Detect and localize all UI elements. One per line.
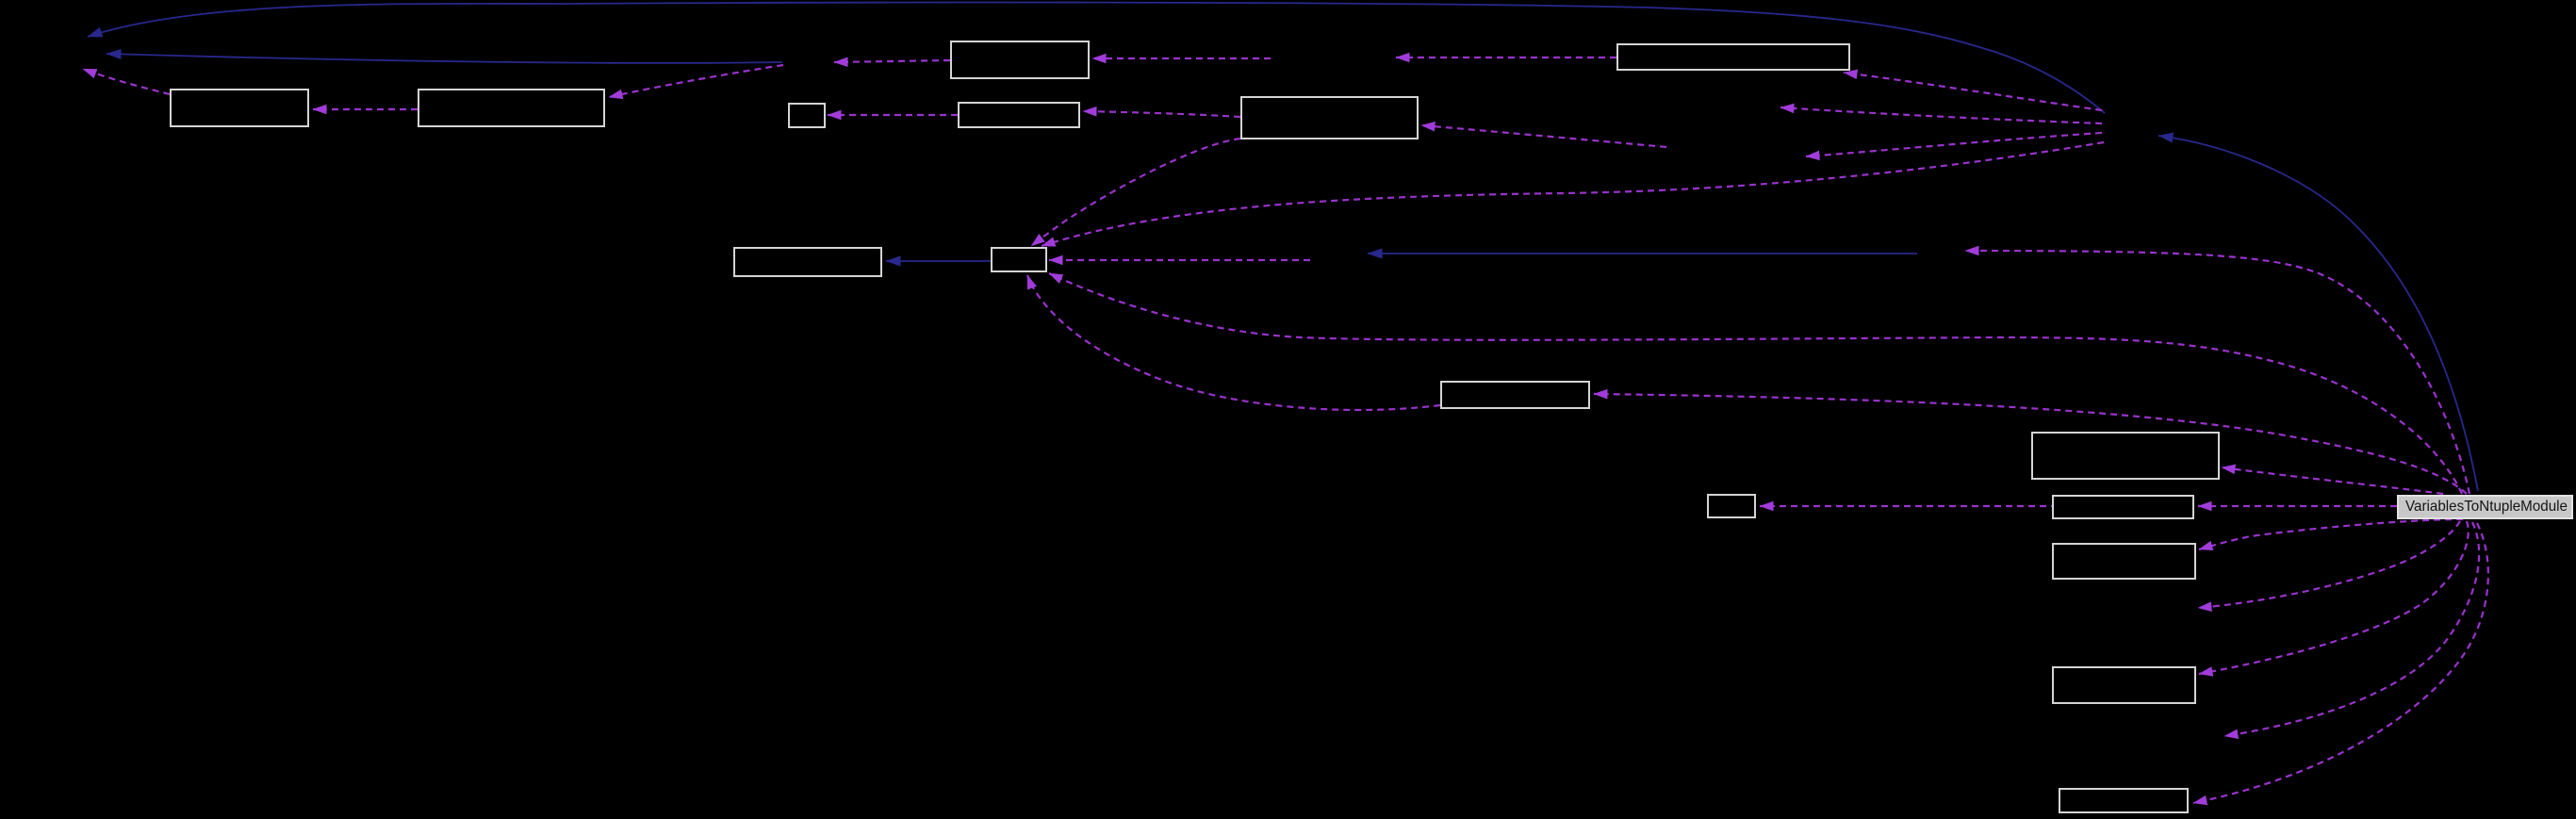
svg-text:VariablesToNtupleModule: VariablesToNtupleModule xyxy=(2405,499,2568,515)
